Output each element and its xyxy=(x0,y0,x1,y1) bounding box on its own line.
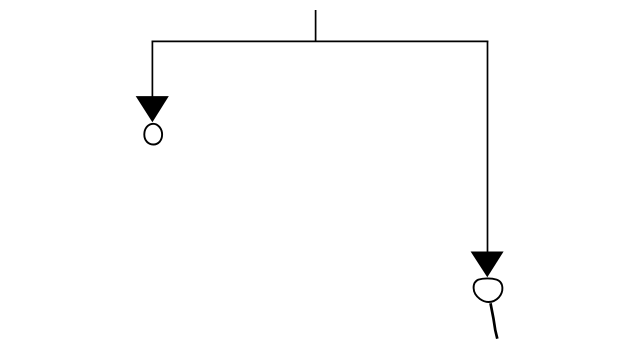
arrowhead: right xyxy=(471,252,504,278)
wire: right drop xyxy=(487,41,489,252)
node: left circle xyxy=(144,124,162,145)
wire: horizontal bar xyxy=(152,40,489,42)
wire: top stub xyxy=(315,10,317,42)
wire: left drop xyxy=(151,41,153,98)
wire: right tail xyxy=(491,303,498,339)
node: right blob xyxy=(474,278,503,302)
arrowhead: left xyxy=(136,96,169,122)
